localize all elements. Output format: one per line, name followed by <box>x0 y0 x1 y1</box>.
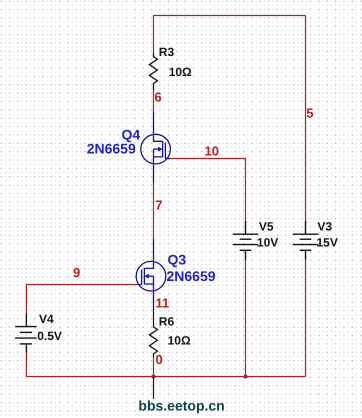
resistor R3 <box>149 54 157 91</box>
svg-text:9: 9 <box>73 265 80 280</box>
svg-text:R3: R3 <box>159 45 175 59</box>
junction dot at V5/rail <box>244 375 248 379</box>
svg-text:10Ω: 10Ω <box>168 334 191 348</box>
svg-text:10V: 10V <box>257 236 278 250</box>
wire from top net down to R3 <box>153 15 155 54</box>
wire R6 to ground rail <box>153 358 155 377</box>
junction dot at R6/rail <box>152 375 156 379</box>
svg-text:2N6659: 2N6659 <box>167 268 216 284</box>
svg-text:V5: V5 <box>259 220 274 234</box>
wire V4 minus to ground rail <box>25 353 27 377</box>
transistor Q3 2N6659 NMOS mirrored <box>136 239 166 310</box>
svg-text:10: 10 <box>205 144 219 159</box>
svg-text:V3: V3 <box>317 220 332 234</box>
svg-text:V4: V4 <box>39 312 54 326</box>
wire node 9 V4 to Q3 gate <box>26 285 136 314</box>
resistor R6 <box>149 327 157 358</box>
svg-text:0.5V: 0.5V <box>37 329 62 343</box>
svg-text:7: 7 <box>155 198 162 213</box>
wire top horizontal net 6-to-5 <box>154 15 306 17</box>
transistor Q4 2N6659 NMOS <box>141 112 171 184</box>
svg-text:15V: 15V <box>317 236 338 250</box>
wire bottom ground rail node 0 <box>26 376 305 378</box>
battery V3 <box>293 221 319 260</box>
battery V5 <box>233 221 259 260</box>
wire stub below rail <box>153 377 155 400</box>
wire node 10 Q4 gate to V5 <box>170 159 245 222</box>
svg-text:Q3: Q3 <box>168 251 187 267</box>
wire node 5 vertical <box>305 16 307 222</box>
battery V4 <box>15 313 37 352</box>
svg-text:0: 0 <box>156 352 163 367</box>
wire node 6 R3-to-Q4 <box>153 90 155 112</box>
svg-text:10Ω: 10Ω <box>169 65 192 79</box>
svg-text:2N6659: 2N6659 <box>87 141 136 157</box>
svg-text:R6: R6 <box>159 315 175 329</box>
svg-text:5: 5 <box>306 105 313 120</box>
svg-text:6: 6 <box>154 90 161 105</box>
svg-text:11: 11 <box>156 295 170 310</box>
svg-text:bbs.eetop.cn: bbs.eetop.cn <box>138 398 224 414</box>
wire node 11 Q3-to-R6 <box>153 310 155 328</box>
wire V3 minus to rail corner <box>305 260 307 377</box>
wire node 7 Q4-to-Q3 <box>153 183 155 239</box>
wire V5 minus to rail <box>245 260 247 377</box>
